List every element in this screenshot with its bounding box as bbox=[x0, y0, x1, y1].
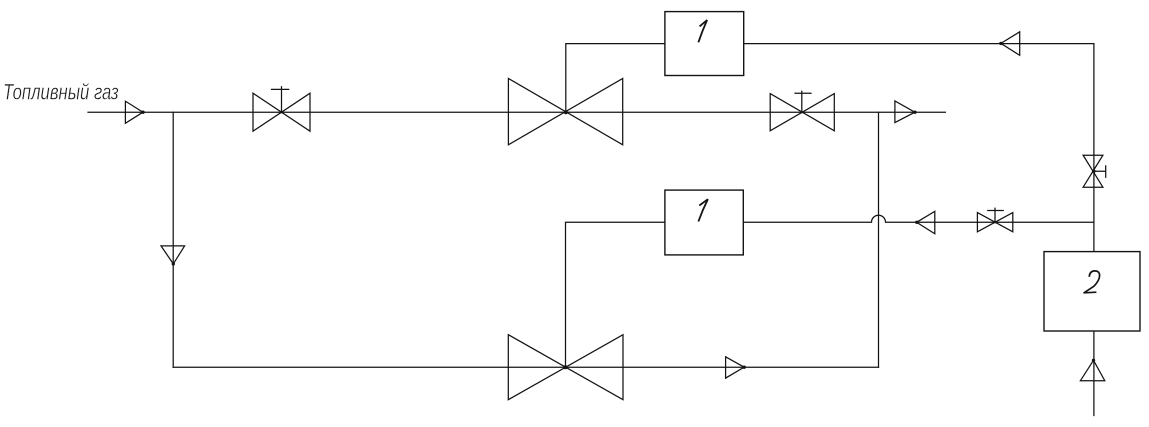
wire upper tap from valve to box 1 bbox=[566, 44, 665, 113]
label 1 upper box bbox=[698, 20, 707, 42]
junction dot valve V2 center bbox=[564, 110, 568, 114]
instrument box 1 lower bbox=[665, 190, 743, 255]
wire right vertical below box 2 bbox=[1093, 331, 1095, 416]
flow arrow left on lower return line bbox=[917, 211, 935, 234]
valve V6 vertical bowtie bbox=[1083, 155, 1103, 187]
junction dot valve V1 center bbox=[280, 111, 282, 113]
wire lower tap from bypass valve to box 1 lower bbox=[566, 222, 665, 367]
dot arrow apex bypass bbox=[743, 366, 746, 369]
flow arrow right on inlet bbox=[125, 101, 143, 123]
wire main fuel gas header y=112 bbox=[88, 111, 945, 113]
valve hand V1 bowtie bbox=[253, 93, 310, 131]
junction dot valve V5 center bbox=[994, 221, 996, 223]
wire left branch vertical x=173 bbox=[172, 112, 174, 367]
junction dot valve V4 center bbox=[564, 365, 568, 369]
dot arrow apex outlet bbox=[913, 111, 916, 114]
dot arrow apex top return bbox=[999, 42, 1002, 45]
flow arrow down on left branch bbox=[161, 246, 185, 264]
dot arrow apex left branch bbox=[172, 262, 175, 265]
wire bottom bypass line y=367 bbox=[173, 366, 878, 368]
flow arrow up below box 2 bbox=[1080, 360, 1104, 380]
junction dot valve V3 center bbox=[801, 111, 803, 113]
junction dot valve V6 center bbox=[1092, 169, 1096, 173]
dot arrow apex lower return bbox=[915, 221, 918, 224]
valve V1 T-handle bbox=[272, 87, 289, 112]
equipment box 2 bbox=[1044, 252, 1140, 331]
valve V6 side handle bbox=[1094, 166, 1106, 177]
svg-text:Топливный газ: Топливный газ bbox=[3, 80, 119, 105]
instrument box 1 upper bbox=[665, 12, 744, 76]
dot arrow apex up below box 2 bbox=[1092, 359, 1095, 362]
wire right vertical upper x=1094 bbox=[1093, 44, 1095, 252]
valve V5 bowtie bbox=[977, 213, 1012, 232]
valve V3 bowtie bbox=[770, 94, 834, 131]
valve V5 T-handle bbox=[988, 208, 1003, 222]
bypass control valve V4 bowtie bbox=[508, 335, 623, 400]
wire lower box 1 to right vertical with hop over riser bbox=[743, 215, 1094, 222]
wire box 1 to right header bbox=[744, 43, 1094, 45]
flow arrow left on top return line bbox=[1001, 32, 1020, 56]
flow arrow right on bypass line bbox=[726, 357, 745, 378]
flow arrow right at header outlet bbox=[895, 101, 915, 123]
valve V3 T-handle bbox=[795, 91, 811, 112]
label 2 equipment box bbox=[1084, 271, 1100, 293]
dot arrow apex inlet bbox=[141, 111, 144, 114]
label 1 lower box bbox=[698, 199, 708, 221]
control valve V2 bowtie bbox=[508, 78, 622, 144]
wire middle riser x=878 bbox=[878, 112, 880, 367]
